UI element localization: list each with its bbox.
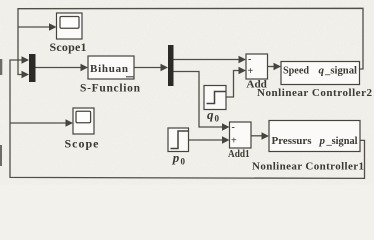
- svg-text:q: q: [207, 107, 214, 122]
- svg-text:Bihuan: Bihuan: [90, 63, 128, 75]
- svg-text:p: p: [319, 135, 326, 147]
- svg-text:-: -: [248, 54, 251, 65]
- svg-text:Nonlinear Controller1: Nonlinear Controller1: [252, 160, 364, 172]
- svg-text:_signal: _signal: [324, 64, 357, 76]
- svg-text:+: +: [248, 66, 254, 77]
- svg-text:0: 0: [215, 114, 220, 124]
- svg-text:q: q: [319, 64, 325, 76]
- svg-text:+: +: [231, 136, 237, 147]
- svg-text:-: -: [232, 122, 235, 133]
- svg-text:Scope: Scope: [65, 137, 100, 151]
- svg-text:0: 0: [181, 157, 186, 167]
- svg-text:Pressurs: Pressurs: [272, 135, 313, 147]
- svg-text:Scope1: Scope1: [50, 40, 87, 54]
- svg-text:Nonlinear Controller2: Nonlinear Controller2: [257, 87, 373, 99]
- svg-text:_signal: _signal: [326, 135, 358, 147]
- svg-text:Add1: Add1: [228, 149, 250, 160]
- svg-text:Speed: Speed: [283, 64, 309, 76]
- svg-text:p: p: [172, 150, 180, 165]
- svg-text:S-Funclion: S-Funclion: [80, 82, 141, 94]
